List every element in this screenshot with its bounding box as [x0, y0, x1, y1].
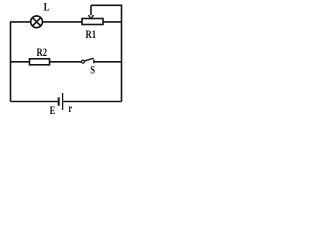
svg-text:S: S	[90, 65, 95, 78]
wire right vertical	[121, 5, 123, 102]
svg-text:R2: R2	[37, 47, 48, 60]
wire R1 to right	[103, 21, 122, 23]
battery cell E r	[59, 93, 63, 110]
wire switch to right	[94, 61, 122, 63]
wire bottom-left segment	[11, 101, 58, 103]
slider arrow of R1	[89, 5, 94, 19]
resistor R2	[30, 59, 50, 65]
switch S	[82, 58, 94, 63]
wire top-left segment	[10, 21, 31, 23]
wire R2 to switch	[50, 61, 82, 63]
resistor R1	[82, 19, 103, 25]
lamp L	[31, 16, 43, 28]
svg-text:r: r	[68, 103, 72, 116]
svg-text:R1: R1	[86, 29, 97, 42]
wire battery to right	[63, 101, 121, 103]
wire middle-left segment	[10, 61, 30, 63]
wire lamp to R1	[43, 21, 83, 23]
svg-text:L: L	[44, 2, 50, 14]
wire left vertical	[10, 22, 12, 102]
wire slider top horizontal	[91, 4, 122, 6]
svg-text:E: E	[50, 105, 56, 118]
